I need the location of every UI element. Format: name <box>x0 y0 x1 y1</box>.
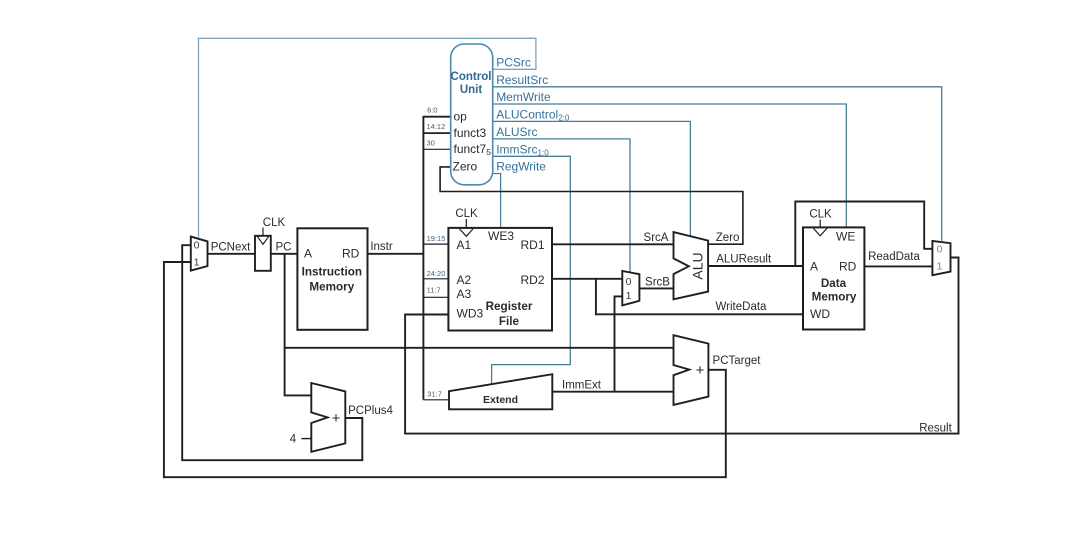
wire A1 tap 19:15 <box>423 243 448 245</box>
wire ALUResult branch to result mux input 0 <box>795 202 932 267</box>
adder PCTarget <box>674 335 709 405</box>
wire op tap 6:0 <box>423 116 450 118</box>
clock triangle PC <box>257 236 268 244</box>
clock triangle Register File <box>460 229 474 236</box>
svg-text:Control: Control <box>451 71 492 83</box>
svg-text:RD1: RD1 <box>521 238 545 252</box>
svg-text:ALUResult: ALUResult <box>716 253 772 265</box>
svg-text:Extend: Extend <box>483 394 518 406</box>
svg-text:Data: Data <box>821 277 847 290</box>
wire ImmSrc <box>492 156 571 384</box>
svg-text:PC: PC <box>276 241 292 253</box>
svg-text:funct75: funct75 <box>454 142 492 157</box>
svg-text:PCPlus4: PCPlus4 <box>348 405 393 417</box>
svg-text:A3: A3 <box>457 287 472 301</box>
svg-text:Result: Result <box>919 423 952 435</box>
svg-text:File: File <box>499 315 520 328</box>
svg-text:0: 0 <box>194 240 200 252</box>
svg-text:funct3: funct3 <box>454 126 487 140</box>
svg-text:Zero: Zero <box>716 232 740 244</box>
mux Result (ResultSrc mux) <box>932 241 950 275</box>
wire RD2 <box>552 278 622 280</box>
svg-text:RegWrite: RegWrite <box>496 160 546 174</box>
svg-text:PCSrc: PCSrc <box>496 55 531 69</box>
svg-text:CLK: CLK <box>455 208 478 220</box>
svg-text:PCTarget: PCTarget <box>713 355 762 367</box>
svg-text:Memory: Memory <box>812 291 857 304</box>
svg-text:WriteData: WriteData <box>716 301 768 313</box>
svg-text:RD: RD <box>839 260 857 274</box>
wire ImmExt <box>552 391 673 393</box>
wire funct3 tap 14:12 <box>423 132 450 134</box>
svg-text:+: + <box>696 362 705 379</box>
svg-text:6:0: 6:0 <box>427 106 437 115</box>
svg-text:4: 4 <box>290 434 297 446</box>
wire Instr bus vertical <box>422 116 424 400</box>
block Data Memory <box>803 227 864 329</box>
svg-text:Memory: Memory <box>309 280 354 293</box>
svg-text:+: + <box>332 410 341 427</box>
clock triangle Data Memory <box>813 228 827 235</box>
wire ImmExt to SrcB mux input 1 <box>615 296 623 391</box>
wire Result loop to WD3 <box>405 258 958 434</box>
svg-text:SrcB: SrcB <box>645 276 670 288</box>
svg-text:11:7: 11:7 <box>427 285 441 294</box>
wire PC to PCTarget adder <box>285 347 674 349</box>
svg-text:WE3: WE3 <box>488 229 514 243</box>
svg-text:A: A <box>810 260 818 274</box>
wire PCPlus4 feedback loop to mux input 0 <box>182 245 362 460</box>
svg-text:RD: RD <box>342 246 360 260</box>
wire Extend tap 31:7 <box>423 399 449 401</box>
wire RD1 SrcA <box>552 243 673 245</box>
wire ALUSrc <box>493 139 630 273</box>
wire A3 tap 11:7 <box>423 296 448 298</box>
wire Instr <box>368 253 424 255</box>
svg-text:A2: A2 <box>457 273 472 287</box>
svg-text:WD: WD <box>810 307 830 321</box>
svg-text:Instruction: Instruction <box>302 266 362 279</box>
op-amp ALU <box>674 232 709 299</box>
svg-text:1: 1 <box>194 256 200 268</box>
svg-text:Register: Register <box>486 300 533 313</box>
svg-text:WD3: WD3 <box>457 307 484 321</box>
svg-text:SrcA: SrcA <box>644 232 669 244</box>
wire ResultSrc <box>493 87 942 241</box>
clock tick Register File <box>465 219 467 227</box>
clock tick Data Memory <box>819 220 821 227</box>
block Register File <box>448 228 552 331</box>
mux SrcB (ALUSrc mux) <box>622 271 639 306</box>
wire ALUControl <box>493 121 691 236</box>
svg-text:RD2: RD2 <box>521 273 545 287</box>
svg-text:WE: WE <box>836 230 855 244</box>
svg-text:ALU: ALU <box>690 252 706 279</box>
svg-text:ReadData: ReadData <box>868 251 920 263</box>
block Extend <box>449 374 552 409</box>
svg-text:A1: A1 <box>457 238 472 252</box>
svg-text:14:12: 14:12 <box>427 122 446 131</box>
mux PCNext (PCSrc mux) <box>191 237 208 271</box>
svg-text:19:15: 19:15 <box>427 234 446 243</box>
adder PCPlus4 <box>311 383 345 452</box>
svg-text:MemWrite: MemWrite <box>496 90 551 104</box>
wire PCNext <box>208 253 256 255</box>
wire PC branch down <box>285 254 312 396</box>
svg-text:0: 0 <box>626 276 632 288</box>
svg-text:0: 0 <box>937 243 943 255</box>
wire ALUResult <box>708 265 803 267</box>
register PC <box>255 236 271 271</box>
svg-text:PCNext: PCNext <box>211 241 251 253</box>
wire PC <box>271 253 298 255</box>
svg-text:1: 1 <box>626 290 632 302</box>
svg-text:ResultSrc: ResultSrc <box>496 73 548 87</box>
clock tick PC <box>262 228 264 236</box>
svg-text:CLK: CLK <box>809 209 832 221</box>
svg-text:31:7: 31:7 <box>427 389 442 398</box>
wire RegWrite <box>493 174 501 228</box>
wire funct7 tap 30 <box>423 148 450 150</box>
svg-text:30: 30 <box>427 138 435 147</box>
wire ReadData <box>863 265 933 267</box>
svg-text:ImmExt: ImmExt <box>562 379 602 391</box>
svg-text:Zero: Zero <box>453 160 478 174</box>
svg-text:Instr: Instr <box>370 241 393 253</box>
wire SrcB mux output <box>639 287 673 289</box>
svg-text:ALUSrc: ALUSrc <box>496 125 537 139</box>
wire MemWrite <box>493 104 847 227</box>
wire PCSrc select path <box>199 38 536 237</box>
wire A2 tap 24:20 <box>423 278 448 280</box>
wire PCTarget feedback loop to mux input 1 <box>164 262 726 477</box>
svg-text:CLK: CLK <box>263 217 286 229</box>
svg-text:A: A <box>304 246 312 260</box>
svg-text:Unit: Unit <box>460 84 483 96</box>
svg-text:24:20: 24:20 <box>427 269 446 278</box>
block Instruction Memory <box>297 228 367 329</box>
svg-text:op: op <box>454 110 468 124</box>
control unit box <box>451 44 493 185</box>
wire RD2 branch to WriteData <box>596 279 803 315</box>
wire Zero from ALU to Control Unit <box>440 167 743 244</box>
wire constant 4 input <box>301 438 311 440</box>
svg-text:1: 1 <box>937 260 943 272</box>
